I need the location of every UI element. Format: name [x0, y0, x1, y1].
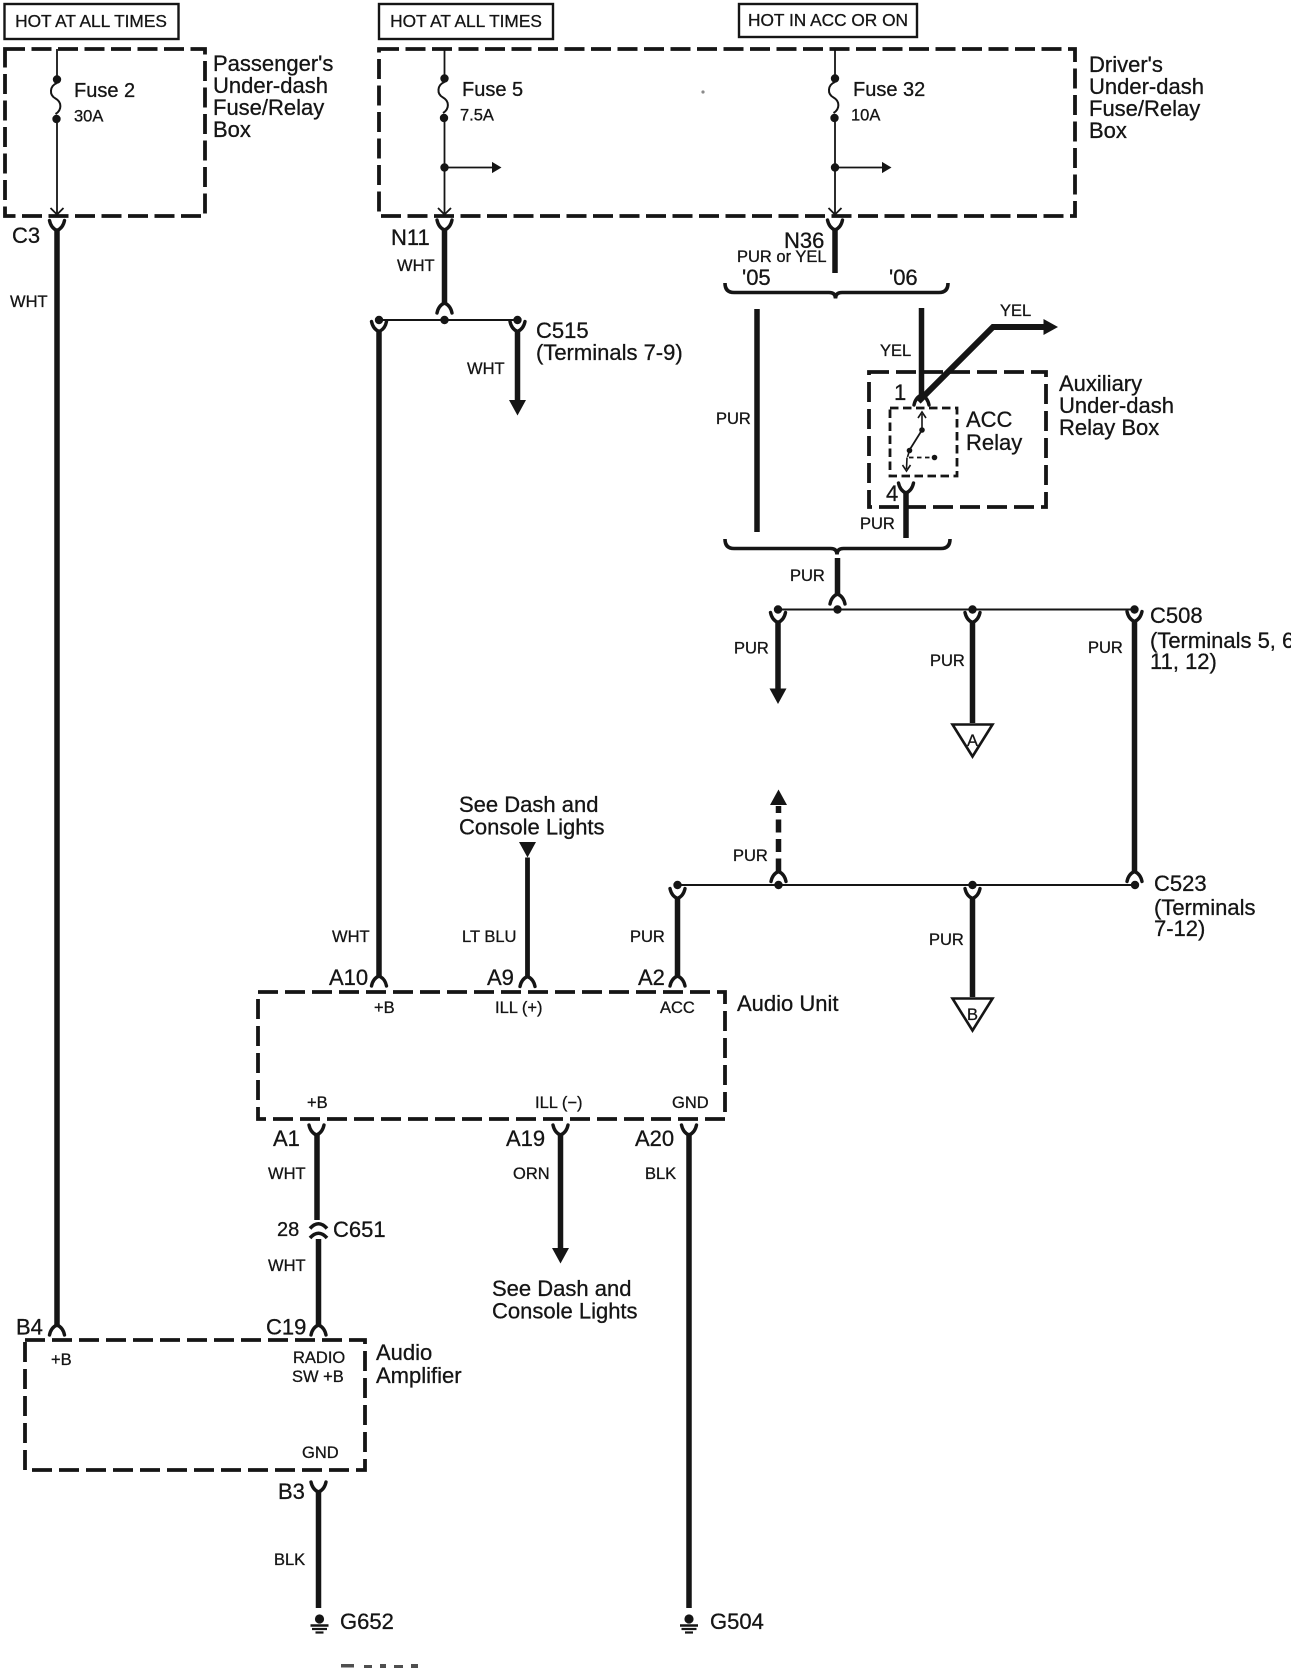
node triangle A — [953, 725, 993, 757]
svg-text:BLK: BLK — [274, 1551, 305, 1569]
svg-text:ACC: ACC — [660, 999, 695, 1017]
svg-text:HOT AT ALL TIMES: HOT AT ALL TIMES — [390, 11, 542, 31]
svg-text:PUR: PUR — [790, 567, 825, 585]
svg-text:PUR: PUR — [929, 931, 964, 949]
node triangle B — [953, 999, 993, 1031]
wire N36 stub down — [832, 230, 838, 273]
svg-text:Amplifier: Amplifier — [376, 1363, 462, 1388]
junction dot and branch arrow inside driver box (fuse 32) — [831, 162, 892, 173]
wire WHT A1 to C651 — [268, 1135, 317, 1220]
scan speck — [701, 90, 704, 93]
header box HOT AT ALL TIMES (middle) — [379, 4, 553, 39]
svg-text:28: 28 — [277, 1219, 299, 1241]
svg-text:ILL (+): ILL (+) — [495, 999, 543, 1017]
header box HOT IN ACC OR ON — [739, 4, 917, 37]
merge brace below '05/'06 branches — [725, 539, 950, 555]
wire WHT long branch down to A10 — [332, 322, 387, 977]
wire PUR C508 branch 3 (down to C523) — [1088, 612, 1142, 882]
svg-text:C19: C19 — [266, 1315, 306, 1340]
svg-text:SW +B: SW +B — [292, 1368, 344, 1386]
svg-text:A10: A10 — [329, 965, 368, 990]
pin B3 connector — [278, 1479, 326, 1504]
svg-text:RADIO: RADIO — [293, 1349, 345, 1367]
ground G652 — [311, 1609, 394, 1634]
wire PUR C523 branch to A2 — [630, 889, 685, 977]
svg-text:Fuse 5: Fuse 5 — [462, 79, 523, 101]
wire YEL '06 branch — [880, 308, 922, 397]
svg-text:Console Lights: Console Lights — [459, 815, 605, 840]
wire PUR pin 4 down — [860, 493, 906, 538]
svg-text:A2: A2 — [638, 965, 665, 990]
svg-text:4: 4 — [886, 481, 898, 506]
Audio Amplifier box (dashed) — [25, 1340, 462, 1470]
svg-text:+B: +B — [51, 1351, 72, 1369]
wire PUR C508 branch 1 (arrow down) — [734, 613, 787, 705]
svg-text:WHT: WHT — [397, 257, 435, 275]
svg-text:B: B — [967, 1006, 978, 1024]
svg-text:Fuse 2: Fuse 2 — [74, 80, 135, 102]
pin A1 connector — [273, 1094, 328, 1151]
svg-text:Box: Box — [213, 117, 251, 142]
node C515 junction line — [375, 316, 683, 365]
pin A20 connector — [635, 1094, 709, 1151]
svg-text:A: A — [967, 732, 978, 750]
junction dot and branch arrow inside driver box (fuse 5) — [440, 162, 501, 173]
svg-text:Relay Box: Relay Box — [1059, 415, 1159, 440]
svg-text:HOT IN ACC OR ON: HOT IN ACC OR ON — [748, 10, 908, 30]
svg-text:+B: +B — [307, 1094, 328, 1112]
pin A10 connector — [329, 965, 395, 1017]
wire ORN A19 to dash lights — [513, 1135, 569, 1264]
svg-text:7-12): 7-12) — [1154, 916, 1205, 941]
node C523 junction line — [673, 871, 1255, 941]
svg-text:WHT: WHT — [268, 1165, 306, 1183]
wire YEL diagonal branch with arrow — [919, 302, 1059, 402]
svg-text:(Terminals 7-9): (Terminals 7-9) — [536, 340, 683, 365]
node C508 junction line — [774, 603, 1291, 674]
wire PUR '05 branch — [716, 309, 757, 532]
svg-text:G504: G504 — [710, 1609, 764, 1634]
pin B4 connector — [16, 1315, 65, 1340]
svg-text:PUR: PUR — [930, 652, 965, 670]
svg-text:ACC: ACC — [966, 407, 1013, 432]
svg-text:See Dash and: See Dash and — [459, 792, 598, 817]
pin 4 connector — [886, 481, 914, 506]
pin A19 connector — [506, 1094, 583, 1151]
svg-text:See Dash and: See Dash and — [492, 1276, 631, 1301]
wire LT BLU from dash lights to A9 — [462, 842, 536, 977]
node N11 connector — [391, 220, 452, 250]
wire WHT N11 down — [397, 230, 452, 313]
svg-text:HOT AT ALL TIMES: HOT AT ALL TIMES — [15, 11, 167, 31]
svg-text:Console Lights: Console Lights — [492, 1299, 638, 1324]
svg-text:A9: A9 — [487, 965, 514, 990]
svg-text:C3: C3 — [12, 223, 40, 248]
svg-text:WHT: WHT — [467, 360, 505, 378]
svg-text:A20: A20 — [635, 1126, 674, 1151]
svg-text:ILL (−): ILL (−) — [535, 1094, 583, 1112]
Audio Unit box (dashed) — [258, 991, 839, 1119]
Passenger's Under-dash Fuse/Relay Box (dashed) — [5, 49, 333, 216]
svg-text:C523: C523 — [1154, 871, 1207, 896]
svg-text:C651: C651 — [333, 1217, 386, 1242]
wire BLK A20 to G504 — [645, 1135, 689, 1608]
svg-text:ORN: ORN — [513, 1165, 550, 1183]
svg-text:PUR: PUR — [860, 515, 895, 533]
wire WHT C651 to C19 — [268, 1239, 319, 1325]
scan footer fragment (cut off) — [341, 1664, 418, 1668]
wire PUR merge output — [790, 558, 845, 604]
svg-text:11, 12): 11, 12) — [1150, 649, 1217, 674]
svg-text:PUR: PUR — [734, 640, 769, 658]
svg-text:GND: GND — [672, 1094, 709, 1112]
svg-text:7.5A: 7.5A — [460, 107, 494, 125]
wire BLK B3 to G652 — [274, 1492, 319, 1608]
svg-text:C508: C508 — [1150, 603, 1203, 628]
wire PUR C508 branch 2 (to triangle A) — [930, 613, 980, 724]
svg-text:PUR: PUR — [733, 847, 768, 865]
svg-text:N11: N11 — [391, 225, 430, 250]
pin A9 connector — [487, 965, 543, 1017]
fuse Fuse 2 30A — [51, 49, 136, 215]
svg-text:YEL: YEL — [1000, 302, 1031, 320]
ground G504 — [680, 1609, 764, 1634]
Driver's Under-dash Fuse/Relay Box (dashed) — [379, 49, 1204, 216]
svg-text:PUR: PUR — [716, 410, 751, 428]
svg-text:PUR: PUR — [630, 928, 665, 946]
svg-text:LT BLU: LT BLU — [462, 928, 516, 946]
svg-text:10A: 10A — [851, 107, 880, 125]
svg-text:30A: 30A — [74, 108, 103, 126]
annotation See Dash and Console Lights (bottom) — [492, 1276, 638, 1324]
header box HOT AT ALL TIMES (left) — [5, 4, 179, 39]
svg-text:A19: A19 — [506, 1126, 545, 1151]
svg-text:YEL: YEL — [880, 342, 911, 360]
svg-text:B3: B3 — [278, 1479, 305, 1504]
svg-text:B4: B4 — [16, 1315, 43, 1340]
svg-text:'05: '05 — [742, 265, 771, 290]
split brace '05 / '06 — [725, 265, 948, 299]
Auxiliary Under-dash Relay Box (dashed) — [869, 371, 1174, 507]
node N36 connector — [737, 220, 843, 266]
svg-text:Audio Unit: Audio Unit — [737, 991, 839, 1016]
svg-text:Fuse 32: Fuse 32 — [853, 79, 925, 101]
svg-text:PUR: PUR — [1088, 639, 1123, 657]
svg-text:+B: +B — [374, 999, 395, 1017]
svg-text:PUR or YEL: PUR or YEL — [737, 248, 827, 266]
svg-text:BLK: BLK — [645, 1165, 676, 1183]
wire PUR C523 branch to triangle B — [929, 889, 980, 998]
pin 1 connector — [894, 380, 929, 405]
svg-text:GND: GND — [302, 1444, 339, 1462]
wire PUR dashed arrow up from C523 — [733, 790, 787, 882]
svg-text:WHT: WHT — [268, 1257, 306, 1275]
connector C651 (pin 28) — [277, 1217, 386, 1242]
relay ACC Relay (inner dashed box) — [890, 407, 1022, 476]
svg-text:A1: A1 — [273, 1126, 300, 1151]
svg-text:'06: '06 — [889, 265, 918, 290]
node C3 connector — [12, 221, 65, 249]
annotation See Dash and Console Lights (top) — [459, 792, 605, 840]
relay contacts and switch arm — [903, 412, 938, 471]
fuse Fuse 32 10A — [829, 49, 925, 213]
wire WHT C515 branch arrow down — [467, 322, 526, 416]
svg-text:G652: G652 — [340, 1609, 394, 1634]
arrowhead into box edge (fuse 32) — [829, 208, 842, 215]
svg-text:Audio: Audio — [376, 1340, 432, 1365]
svg-text:1: 1 — [894, 380, 906, 405]
pin A2 connector — [638, 965, 695, 1017]
svg-text:Relay: Relay — [966, 430, 1022, 455]
svg-text:Box: Box — [1089, 118, 1127, 143]
arrowhead into box edge (fuse 5) — [438, 208, 451, 215]
svg-text:WHT: WHT — [10, 293, 48, 311]
svg-text:WHT: WHT — [332, 928, 370, 946]
pin C19 connector — [266, 1315, 326, 1340]
fuse Fuse 5 7.5A — [438, 49, 523, 213]
wire WHT from C3 to B4 — [10, 231, 57, 1326]
